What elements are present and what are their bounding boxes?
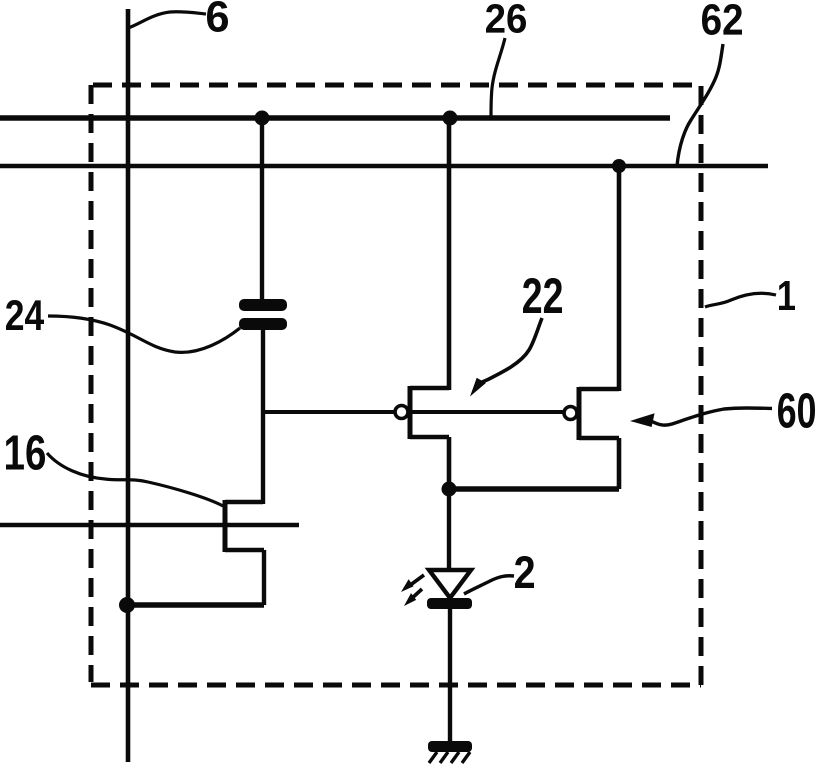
wire: Q16 source to data line 6 [127, 602, 264, 607]
transistor Q16 top jog [225, 500, 263, 504]
label 2 [515, 556, 534, 588]
label 24 [6, 300, 44, 330]
pixel boundary box 1 bottom dashed edge [91, 683, 701, 688]
ground symbol hatch 3 [451, 752, 459, 763]
wire: LED cathode to ground [448, 608, 452, 743]
pixel boundary box 1 top dashed edge [93, 83, 701, 88]
pixel boundary box 1 left dashed edge [89, 85, 94, 682]
wire: capacitor bottom to transistor 16 [261, 330, 265, 504]
label 62 [702, 4, 742, 35]
transistor Q22 top jog [410, 386, 449, 390]
arrowhead for label 22 [470, 378, 486, 397]
leader arrow for label 60 [652, 408, 772, 425]
arrowhead for label 60 [630, 413, 655, 427]
transistor Q60 gate bubble [564, 407, 577, 420]
transistor Q16 channel [223, 500, 228, 552]
wire: node down to LED anode [447, 489, 451, 571]
LED light ray arrow 1 shaft [409, 575, 424, 586]
leader line for label 16 [47, 453, 223, 506]
capacitor C 24 bottom plate [239, 318, 287, 330]
transistor Q60 drain vertical from line 62 [617, 166, 622, 391]
LED light ray arrow 2 head [404, 593, 416, 606]
LED D2 cathode bar [427, 598, 472, 609]
leader line for label 2 [464, 576, 514, 594]
node junction on line 26 at Q22 [443, 111, 458, 126]
transistor Q22 bottom jog [410, 435, 449, 439]
wire: data line 6 vertical [126, 9, 131, 762]
label 60 [778, 393, 815, 428]
transistor Q22 source vertical [447, 437, 452, 489]
ground symbol hatch 4 [462, 752, 470, 763]
ground symbol hatch 1 [429, 752, 437, 763]
transistor Q60 channel [577, 387, 582, 440]
LED light ray arrow 2 shaft [410, 589, 422, 600]
leader line for label 26 [491, 38, 505, 116]
wire: scan row line horizontal [0, 523, 299, 528]
label 1 [779, 281, 795, 310]
label 22 [523, 278, 562, 313]
label 6 [207, 1, 228, 32]
leader arrow for label 22 [479, 318, 542, 384]
leader line for label 1 [705, 293, 776, 307]
node junction on line 62 at Q60 [612, 159, 626, 173]
LED light ray arrow 1 head [401, 579, 414, 592]
transistor Q16 source vertical [262, 550, 266, 605]
node junction on data line at Q16 [119, 597, 135, 613]
capacitor C 24 top plate [239, 299, 287, 311]
wire: capacitor branch from line 26 [260, 118, 264, 301]
transistor Q60 bottom jog [579, 436, 619, 440]
wire: source tie between Q22 and Q60 [449, 486, 619, 491]
transistor Q22 gate bubble [395, 406, 408, 419]
wire: gate node line to inverter gates [263, 410, 564, 414]
pixel boundary box 1 right dashed edge [699, 86, 704, 685]
ground symbol bar [428, 741, 472, 752]
leader line for label 6 [128, 12, 206, 28]
node junction at LED anode [442, 482, 457, 497]
ground symbol hatch 2 [440, 752, 448, 763]
node junction on line 26 at capacitor [255, 111, 270, 126]
leader line for label 24 [48, 316, 240, 352]
transistor Q22 channel [408, 386, 413, 439]
wire: power line 26 horizontal [0, 115, 670, 121]
wire: control line 62 horizontal [0, 164, 768, 169]
transistor Q22 drain vertical from line 26 [447, 118, 452, 390]
transistor Q16 bottom jog [225, 548, 264, 552]
label 16 [6, 435, 45, 470]
label 26 [486, 4, 526, 33]
LED D2 triangle [429, 570, 471, 598]
transistor Q60 source vertical [617, 438, 622, 489]
leader line for label 62 [677, 44, 723, 166]
transistor Q60 top jog [579, 387, 619, 391]
